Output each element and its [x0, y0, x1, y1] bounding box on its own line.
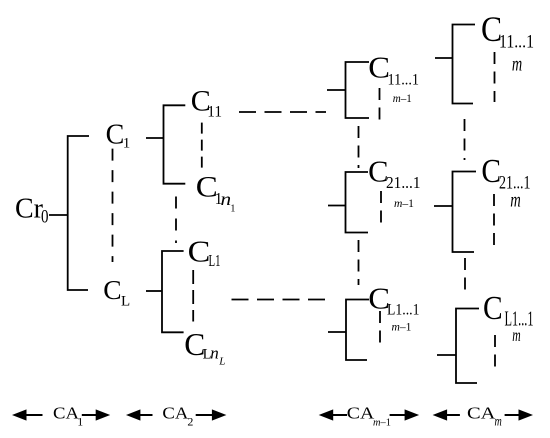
svg-text:C: C [103, 274, 121, 305]
bracket m top [435, 57, 453, 59]
svg-text:1: 1 [77, 415, 83, 429]
svg-text:C: C [188, 235, 211, 269]
svg-text:m: m [495, 413, 503, 429]
dashed wire under C11..1 m-1 [379, 88, 381, 126]
dashed wire under C11 [201, 123, 203, 170]
svg-text:CA: CA [347, 404, 375, 423]
arrow CAm-1 [319, 409, 419, 420]
label CA2 [162, 404, 193, 429]
node Cr0 [15, 194, 48, 228]
label CAm-1 [347, 404, 391, 429]
node C11..1 m-1 [368, 51, 419, 105]
dashed wire bracket2-bracket3 [175, 197, 177, 244]
bracket m-1 middle [328, 205, 346, 207]
svg-text:n: n [210, 344, 219, 363]
svg-text:21...1: 21...1 [386, 173, 421, 192]
node C21..1 m-1 [368, 155, 420, 210]
bracket m-1 top [327, 89, 346, 91]
dashed wire under C21..1 m-1 [380, 191, 382, 229]
svg-text:m–1: m–1 [392, 320, 412, 334]
svg-text:CA: CA [53, 404, 80, 423]
bracket m middle [434, 205, 453, 207]
dashed wire under C11..1 m [494, 52, 496, 102]
bracket root (Cr0 children) [68, 136, 89, 290]
svg-text:C: C [483, 289, 503, 326]
dashed wire bracket5-bracket6 [358, 240, 360, 285]
svg-text:CA: CA [162, 404, 189, 423]
dashed wire bracket8-bracket9 [464, 258, 466, 293]
dashed wire under CL1..1 m-1 [379, 311, 381, 350]
svg-text:2: 2 [187, 415, 193, 429]
node CL1..1 m [483, 289, 534, 345]
bracket C1 children [164, 105, 186, 183]
dashed wire under CL1 [192, 270, 194, 322]
svg-text:L1...1: L1...1 [387, 302, 420, 319]
node C1n1 [196, 170, 236, 215]
node Cr0 wire [49, 214, 68, 216]
node C21..1 m [481, 152, 530, 211]
node C1 [106, 119, 131, 151]
node CL1..1 m-1 [368, 281, 419, 333]
dashed wire CL to CA m-1 column [232, 299, 328, 301]
dashed wire bracket7-bracket8 [464, 119, 466, 160]
svg-text:Cr: Cr [15, 194, 44, 225]
dashed wire bracket4-bracket5 [358, 126, 360, 168]
svg-text:L: L [218, 355, 225, 367]
wire CL to bracket3 [146, 290, 162, 292]
svg-text:11...1: 11...1 [388, 71, 420, 88]
svg-text:m–1: m–1 [394, 196, 414, 210]
dashed wire under CL1..1 m [494, 335, 496, 373]
arrow CA2 [126, 409, 226, 420]
svg-text:1: 1 [123, 136, 131, 152]
node CL [103, 274, 130, 310]
bracket m bottom [437, 354, 456, 356]
node CLnL [184, 327, 225, 368]
node C11 [191, 85, 222, 121]
svg-text:m: m [510, 188, 521, 211]
svg-text:0: 0 [41, 206, 48, 227]
dashed wire C11 to CA m-1 column [239, 111, 326, 113]
label CA1 [53, 404, 83, 429]
arrow CA1 left [12, 409, 110, 420]
svg-text:11...1: 11...1 [499, 31, 534, 52]
svg-text:11: 11 [207, 103, 222, 120]
svg-text:m–1: m–1 [393, 91, 412, 105]
svg-text:CA: CA [467, 404, 496, 423]
bracket CL children [162, 251, 184, 332]
bracket m-1 bottom [328, 331, 346, 333]
svg-text:1: 1 [230, 204, 235, 215]
dashed wire under C21..1 m [493, 194, 495, 248]
wire C1 to bracket2 [146, 137, 164, 139]
svg-text:L1: L1 [209, 252, 221, 270]
svg-text:m: m [512, 326, 520, 346]
node CL1 [188, 235, 221, 270]
svg-text:m–1: m–1 [373, 416, 391, 428]
dashed wire under C1 [112, 149, 114, 262]
svg-text:L: L [121, 294, 130, 310]
arrow CAm [433, 409, 533, 420]
svg-text:C: C [106, 119, 125, 150]
svg-text:m: m [512, 52, 522, 75]
node C11..1 m [481, 10, 534, 75]
label CAm [467, 404, 502, 429]
